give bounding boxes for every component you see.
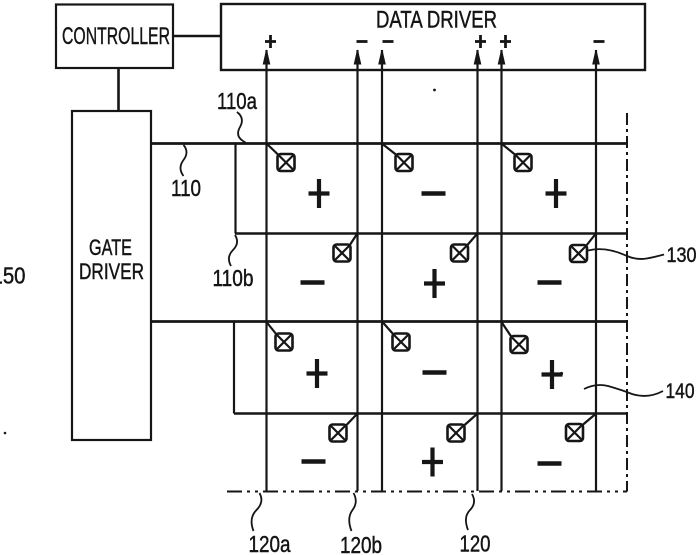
svg-text:130: 130 bbox=[667, 243, 696, 267]
pixel polarity - row1 col2 bbox=[422, 191, 446, 196]
svg-text:110b: 110b bbox=[213, 265, 254, 291]
data line D2 bbox=[356, 50, 358, 491]
data line D5 bbox=[500, 50, 502, 491]
controller U1 box bbox=[56, 5, 173, 69]
TFT Q13 bbox=[502, 144, 532, 171]
gate line G2b (row boundary) bbox=[234, 412, 626, 414]
pixel polarity + row4 col2 bbox=[422, 448, 443, 477]
arrow on D6 bbox=[593, 50, 599, 64]
svg-text:GATE: GATE bbox=[89, 235, 132, 260]
leader 110b bbox=[229, 235, 237, 266]
TFT Q31 bbox=[267, 322, 293, 351]
pixel polarity - row2 col3 bbox=[538, 280, 562, 285]
arrow on D5 bbox=[498, 50, 504, 64]
leader 140 bbox=[584, 385, 663, 396]
pixel polarity + row3 col1 bbox=[307, 359, 328, 388]
TFT Q11 bbox=[267, 144, 295, 171]
wire controller to data driver bbox=[173, 35, 221, 38]
data line D3 bbox=[381, 50, 383, 491]
gate line G1b (row boundary 110b) bbox=[235, 232, 627, 234]
arrow on D1 bbox=[263, 50, 269, 64]
TFT Q42 bbox=[448, 414, 478, 442]
polarity - on D6 bbox=[594, 40, 605, 43]
arrow on D4 bbox=[474, 50, 480, 64]
gate line G2 bbox=[151, 320, 626, 323]
pixel polarity - row2 col1 bbox=[301, 280, 325, 285]
svg-text:140: 140 bbox=[666, 379, 695, 403]
polarity + on D4 bbox=[475, 35, 486, 48]
leader 120b bbox=[349, 493, 356, 531]
TFT Q43 bbox=[566, 414, 596, 441]
pixel polarity + row3 col3 bbox=[542, 360, 563, 389]
data line D4 bbox=[476, 50, 478, 491]
noise dot 2 bbox=[4, 432, 7, 435]
pixel polarity - row3 col2 bbox=[423, 370, 447, 375]
svg-text:120: 120 bbox=[460, 531, 491, 555]
leader 110a bbox=[237, 112, 246, 143]
leader 110 bbox=[181, 145, 187, 176]
pixel polarity - row4 col3 bbox=[538, 461, 562, 466]
svg-text:120b: 120b bbox=[340, 532, 382, 555]
TFT Q22 bbox=[451, 234, 477, 262]
data line D1 bbox=[265, 50, 267, 491]
svg-text:DRIVER: DRIVER bbox=[79, 259, 144, 284]
svg-text:150: 150 bbox=[0, 263, 26, 289]
polarity + on D5 bbox=[500, 35, 511, 48]
svg-text:110a: 110a bbox=[217, 88, 258, 114]
TFT Q12 bbox=[383, 144, 413, 171]
TFT Q32 bbox=[383, 322, 410, 351]
polarity + on D1 bbox=[265, 35, 276, 48]
polarity - on D2 bbox=[357, 40, 368, 43]
noise dot 1 bbox=[433, 89, 436, 92]
TFT Q41 bbox=[330, 414, 358, 442]
leader 130 bbox=[588, 249, 664, 259]
pixel polarity + row1 col3 bbox=[546, 179, 567, 208]
polarity - on D3 bbox=[383, 40, 394, 43]
svg-text:110: 110 bbox=[171, 175, 201, 201]
arrow on D2 bbox=[354, 50, 360, 64]
pixel polarity + row2 col2 bbox=[424, 269, 445, 298]
TFT Q21 bbox=[334, 234, 358, 262]
panel outline dash-dot bottom bbox=[227, 491, 627, 493]
pixel polarity + row1 col1 bbox=[309, 179, 330, 208]
wire controller to gate driver bbox=[117, 68, 120, 111]
arrow on D3 bbox=[379, 50, 385, 64]
leader 120 bbox=[466, 494, 474, 530]
svg-text:CONTROLLER: CONTROLLER bbox=[62, 23, 170, 50]
TFT Q23 bbox=[570, 234, 596, 262]
svg-text:DATA DRIVER: DATA DRIVER bbox=[376, 7, 497, 34]
wire row1 left border bbox=[234, 144, 236, 234]
gate driver U3 box bbox=[72, 111, 151, 440]
data line D6 bbox=[595, 50, 597, 491]
svg-text:120a: 120a bbox=[249, 531, 292, 555]
TFT Q33 bbox=[502, 322, 528, 353]
panel outline dash-dot right bbox=[626, 113, 628, 492]
gate line G1 bbox=[151, 142, 626, 145]
wire row3 left border bbox=[233, 322, 235, 414]
leader 120a bbox=[252, 493, 262, 531]
data driver U2 box bbox=[221, 4, 645, 70]
pixel polarity - row4 col1 bbox=[302, 459, 326, 464]
